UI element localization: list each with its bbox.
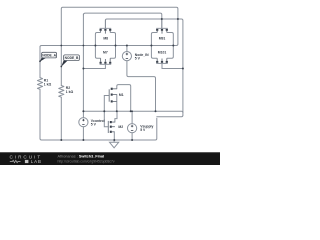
svg-text:M2: M2 — [118, 125, 123, 129]
junction dot rail y3 x=177.9 — [177, 18, 179, 20]
wire NODE_B vertical x=61.3 — [60, 64, 62, 140]
svg-text:http://circuitlab.com/c/rg9t45: http://circuitlab.com/c/rg9t452qdd8c7v — [58, 159, 115, 163]
svg-text:1 kΩ: 1 kΩ — [44, 82, 52, 86]
transistor M8 — [95, 20, 115, 59]
junction dot rail A x83 — [82, 110, 84, 112]
transistor M1 — [109, 88, 117, 103]
junction dot rail y3 x=161.8 — [161, 18, 163, 20]
wire Vcontrol top — [82, 111, 84, 117]
net flag NODE_B — [61, 55, 79, 67]
voltage source Node_IN circle — [122, 52, 131, 61]
junction dot mid rail x83 cross — [83, 45, 85, 47]
wire NODE_A vertical — [39, 47, 41, 139]
svg-text:M1: M1 — [119, 93, 124, 97]
resistor R2 — [59, 86, 64, 98]
svg-text:5 V: 5 V — [91, 123, 97, 127]
wire Vcontrol bottom — [82, 127, 84, 140]
svg-text:NODE_A: NODE_A — [42, 54, 56, 58]
wire M1 source riser — [116, 95, 118, 112]
junction dot rail A node_in loop — [155, 110, 157, 112]
junction dot mid rail left box right edge — [115, 45, 117, 47]
wire M7 drain to x=83.4 — [83, 64, 105, 68]
svg-text:Athonanas : Switch3_Final: Athonanas : Switch3_Final — [58, 155, 105, 159]
svg-text:5 V: 5 V — [140, 128, 146, 132]
wire mid rail y=45.5 — [40, 44, 178, 60]
junction dot gnd rail vcontrol — [82, 139, 84, 141]
svg-text:M8: M8 — [103, 37, 108, 41]
svg-text:1 kΩ: 1 kΩ — [66, 90, 74, 94]
wire rail y3 — [105, 19, 182, 115]
junction dot mid rail right box left edge — [150, 45, 152, 47]
plus minus marks of sources — [82, 53, 133, 131]
transistor M101 — [156, 58, 168, 63]
wire M2 drain riser — [115, 111, 117, 122]
wire staple from right vertical to ground riser — [157, 115, 183, 117]
junction dot x83 y68.5 — [82, 68, 84, 70]
transistor M7 — [100, 58, 112, 64]
resistor R1 — [37, 78, 42, 90]
junction dot mid rail left box left edge — [94, 45, 96, 47]
junction dot mid rail node_b cross — [60, 45, 62, 47]
wire M1 drain loop — [117, 85, 131, 112]
svg-text:M91: M91 — [159, 37, 166, 41]
voltage source Vsupply circle — [128, 124, 137, 133]
junction dot gnd rail vsupply — [131, 139, 133, 141]
transistor M91 — [151, 20, 173, 59]
junction dot rail A m1 source — [116, 110, 118, 112]
junction dot rail A gate riser — [103, 110, 105, 112]
wire top rail y1 (NODE_B net) — [61, 7, 178, 64]
net flag NODE_A — [40, 52, 57, 61]
svg-text:5 V: 5 V — [135, 57, 141, 61]
wire M1 gate lead — [104, 95, 109, 97]
junction dot rail A m1 drain loop — [130, 110, 132, 112]
wire ground rail y=140 — [40, 118, 157, 140]
wire Node_IN loop down — [127, 61, 156, 112]
svg-text:M7: M7 — [103, 51, 108, 55]
wire rail y2 — [83, 13, 161, 28]
junction dot gnd rail node_b — [60, 139, 62, 141]
junction dot right vertical y=68.5 — [182, 68, 184, 70]
junction dot node_a flag tip — [39, 60, 41, 62]
svg-text:LAB: LAB — [31, 159, 42, 164]
junction dot node_in top — [126, 45, 128, 47]
svg-text:NODE_B: NODE_B — [65, 56, 79, 60]
wire Vsupply top — [131, 111, 133, 123]
footer bar — [0, 152, 220, 165]
wire Node_IN top — [126, 46, 128, 52]
wire M101 drain to right vertical — [162, 63, 183, 68]
voltage source Vcontrol circle — [79, 118, 88, 127]
junction dot rail A vsupply — [131, 110, 133, 112]
wire rail A y=111.3 — [83, 111, 182, 112]
junction dot gnd rail m2 — [113, 139, 115, 141]
wire M2 source to ground — [113, 132, 115, 140]
junction dot mid rail right box right edge — [172, 45, 174, 47]
ground symbol — [110, 140, 119, 148]
wire x=83.4 long vertical — [82, 14, 84, 111]
transistor M2 — [108, 121, 115, 133]
wire Vsupply bottom — [131, 133, 133, 140]
wire gate riser M1/M2 — [104, 96, 108, 127]
junction dot node_b flag tip — [60, 66, 62, 68]
svg-text:M101: M101 — [158, 51, 167, 55]
